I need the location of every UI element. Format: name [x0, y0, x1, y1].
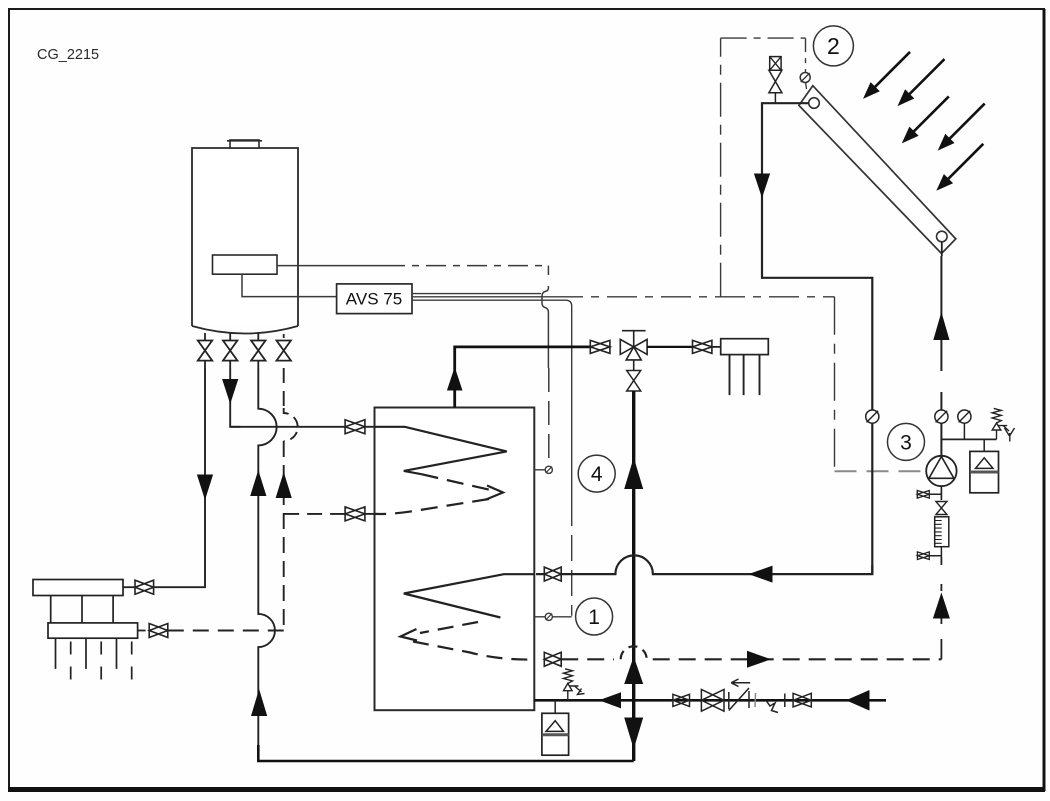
safety valve bowtie below	[769, 70, 782, 92]
collector top pipe	[762, 103, 872, 410]
radiator 2	[48, 623, 138, 638]
solar supply line y=574.1 tank to right	[536, 555, 872, 574]
safety valve square with X	[770, 57, 781, 71]
radiator 1 stub to valve	[123, 586, 135, 588]
valve C	[793, 693, 811, 707]
tank top pipe up to heating flow	[455, 347, 591, 408]
pump to drain	[940, 486, 942, 500]
flex ticks	[754, 693, 757, 707]
arrow right on solar return	[747, 651, 771, 668]
svg-text:4: 4	[591, 463, 603, 486]
arrow up on DHW line lower	[624, 657, 643, 685]
radiator 1 legs	[51, 596, 113, 623]
valve V1 under boiler	[198, 333, 212, 368]
pipe 2: boiler down, corner to tank	[230, 368, 240, 427]
arrow left near tank	[599, 692, 621, 708]
heating circuit symbol	[721, 339, 769, 355]
valve on solar supply	[544, 567, 561, 581]
tank upper coil chevron	[486, 486, 503, 500]
relief valve on header	[992, 408, 1014, 441]
wire: gray dashed to pump	[835, 470, 927, 472]
tank lower coil chevron	[401, 629, 418, 641]
storage tank	[375, 408, 535, 711]
radiator 2 dashed legs	[71, 642, 132, 684]
tank upper coil solid	[375, 427, 507, 474]
circle label 1	[576, 598, 613, 635]
collector sensor circle	[800, 73, 810, 83]
tank upper coil dashed	[422, 474, 495, 491]
valve after radiator 2	[149, 624, 168, 638]
collector panel	[799, 86, 956, 254]
svg-text:3: 3	[900, 432, 912, 455]
dashed hop arc over DHW line	[621, 646, 647, 659]
valve on coil exit line	[345, 507, 365, 521]
arrow up on pipe 3 bottom	[251, 689, 267, 716]
relief valve on tank line	[564, 669, 585, 701]
wire: collector top dash-dot horizontal y=38.1	[721, 37, 806, 39]
sun arrow 1	[863, 52, 910, 99]
header line	[941, 438, 996, 440]
cold water line y=700.3	[534, 699, 886, 702]
svg-text:1: 1	[588, 606, 600, 629]
gauge on downpipe x=872.3	[866, 410, 879, 423]
svg-text:CG_2215: CG_2215	[37, 47, 99, 63]
collector top circle port	[809, 98, 820, 109]
tank sensor 1	[534, 616, 545, 618]
stem from 3-way down + small valve	[633, 360, 635, 371]
pipe 1: boiler to radiator 1	[154, 368, 205, 587]
valve V2 under boiler	[223, 333, 237, 368]
dashed pipe: tank coil exit y=513.9 to pipe 4	[365, 513, 375, 515]
arrow up on pipe 3	[250, 470, 266, 496]
wire: control line up at x=720.6 to collector top	[720, 38, 722, 297]
gauge on riser	[935, 410, 948, 423]
pipe 4 dashed: boiler down with dashed hop detour	[283, 368, 285, 408]
valve V4 under boiler (dashed stem)	[277, 341, 291, 361]
pipe 3: boiler down with hop detours	[258, 368, 276, 747]
gauge 2 with stem	[958, 410, 971, 423]
pipe from 3-way to heating circuit	[647, 346, 692, 348]
wire bundle from AVS 75	[412, 293, 541, 295]
valve on boiler flow line	[345, 420, 365, 434]
boiler bottom curve	[192, 326, 298, 334]
solar pump	[926, 456, 956, 486]
valve before heating circuit	[693, 340, 712, 353]
line down to return with arrow	[940, 557, 942, 659]
bottom border thick	[8, 787, 1045, 792]
solar return dashed y=659.3	[561, 658, 614, 660]
arrow up on tank top pipe	[447, 367, 463, 391]
circle label 3	[888, 423, 925, 460]
svg-text:AVS 75: AVS 75	[346, 290, 402, 309]
boiler control panel	[213, 255, 278, 274]
arrow up on riser	[933, 312, 949, 340]
drain branch 1	[917, 490, 941, 498]
wire: panel down then right to AVS 75	[242, 274, 337, 296]
tank lower coil dashed exit	[413, 642, 534, 660]
arrow down on DHW line bottom	[624, 718, 643, 750]
3-way valve T-handle	[622, 331, 646, 347]
AVS 75 box	[337, 284, 412, 314]
tank lower coil solid	[404, 574, 535, 617]
valve on heating flow line	[590, 340, 610, 353]
wire: panel to right (dash-dot) then down at x=548.4	[277, 265, 385, 267]
collector bottom circle port	[937, 231, 948, 242]
check valve diagonal	[729, 688, 749, 711]
svg-text:2: 2	[827, 33, 840, 59]
radiator 2 dashed stub	[138, 630, 150, 632]
check valve arrow above	[731, 679, 750, 687]
arrow down on pipe 1	[197, 475, 213, 501]
arrow up on pipe 4	[276, 472, 292, 498]
wire: dashed control line to collector junction x=720.6	[553, 296, 835, 298]
solar return riser x=941.4	[940, 256, 942, 456]
big arrow left at right	[846, 690, 870, 711]
right border thick	[1043, 9, 1046, 791]
expansion vessel solar	[970, 439, 999, 492]
boiler chimney	[230, 140, 259, 148]
tank upper coil dashed exit	[375, 499, 490, 514]
boiler	[192, 148, 298, 326]
expansion vessel below tank	[542, 700, 569, 755]
collector bottom stub	[941, 242, 943, 256]
sun arrow 2	[898, 59, 945, 106]
wire: control line down at x=834.5 to solar pump	[834, 297, 836, 471]
sun arrow 3	[902, 96, 949, 143]
thick DHW vertical line x=633.7	[632, 391, 635, 761]
pipe: horizontal boiler flow y=426.8 to tank	[230, 426, 345, 428]
sun arrow 4	[938, 104, 985, 151]
valve on solar return	[544, 652, 561, 666]
circle label 4	[578, 455, 615, 492]
valve V3 under boiler	[251, 333, 265, 368]
drain branch 2	[929, 547, 941, 557]
dashed radiator return to pipe 4	[168, 630, 284, 632]
wire: bundle line curving down at x=571.7 (to sensor 1)	[412, 300, 572, 500]
arrow down on pipe 2	[222, 379, 238, 404]
sun arrow 5	[936, 144, 983, 191]
3-way mixing valve	[620, 339, 647, 360]
small vertical valve under 3-way	[627, 371, 641, 392]
solar return dashed right part	[653, 658, 942, 660]
wire: sensor line down to tank sensor 4 (x=548.4) with jog	[547, 266, 549, 275]
small vertical valve under pump	[936, 502, 947, 515]
radiator 2 legs	[56, 638, 117, 669]
wire: dash-dot down to collector sensor	[805, 38, 807, 72]
arrow up on DHW line	[624, 458, 643, 490]
small valve A	[673, 694, 690, 706]
bigger valve B	[701, 689, 724, 711]
arrow down on collector supply	[754, 174, 770, 199]
circle label 2	[813, 26, 853, 66]
tank sensor 4	[534, 469, 545, 471]
arrow left on solar supply	[749, 566, 773, 583]
radiator 1	[33, 580, 123, 596]
bottom pipe	[258, 745, 633, 761]
flow meter	[935, 517, 949, 547]
cold water valve train	[673, 679, 811, 713]
tank lower coil dashed	[420, 622, 478, 633]
valve after radiator 1	[135, 580, 154, 594]
